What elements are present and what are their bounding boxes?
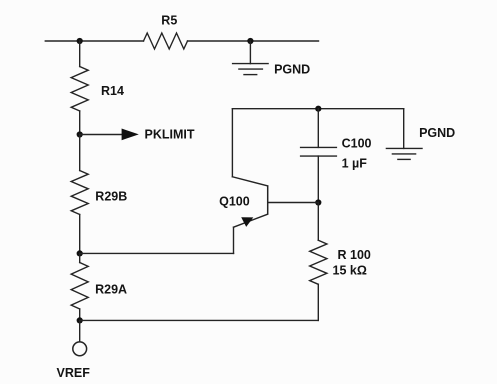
svg-text:PGND: PGND [274,63,310,77]
node junction D [77,250,83,256]
wire R29A to node E [79,309,81,320]
transistor Q100 emitter diagonal [234,214,268,227]
node junction C [77,131,83,137]
node junction A [77,38,83,44]
svg-text:R 100: R 100 [338,248,371,262]
svg-text:PKLIMIT: PKLIMIT [145,128,195,142]
node junction B [247,38,253,44]
transistor Q1 collector diagonal [232,177,267,186]
terminal VREF circle [73,342,87,356]
resistor R5 [144,33,188,49]
svg-text:15 kΩ: 15 kΩ [333,263,367,277]
svg-text:R14: R14 [101,84,124,98]
resistor R14 [71,67,88,112]
resistor R29A [71,263,88,310]
transistor Q100 emitter arrow [241,217,253,227]
wire bottom rail [80,319,319,321]
svg-text:1 µF: 1 µF [342,156,368,170]
resistor R100 [310,240,327,284]
wire top rail right segment [188,40,319,42]
node junction G [315,199,321,205]
svg-text:Q100: Q100 [219,194,250,208]
svg-text:R5: R5 [161,14,177,28]
wire collector riser [231,109,233,177]
wire middle rail [232,108,403,110]
wire node D to R29A [79,253,81,262]
wire node F to C100 top plate [317,109,319,148]
wire emitter drop [233,227,235,253]
node junction E [77,317,83,323]
wire base to node G [268,202,319,204]
resistor R29B [71,171,88,215]
wire R14 to node C [79,111,81,135]
wire node G to R100 [317,203,319,241]
wire top rail left segment [45,40,143,42]
svg-text:PGND: PGND [419,126,455,140]
wire C100 bottom to node G [317,156,319,202]
wire ground stub [249,41,251,64]
wire PGND2 drop [403,109,405,149]
wire node C to R29B [79,135,81,171]
wire PKLIMIT stub [80,134,122,136]
svg-text:VREF: VREF [57,366,91,380]
wire R29B to node D [79,215,81,254]
capacitor C100 [301,147,337,156]
wire node E to VREF terminal [79,320,81,342]
wire node D to emitter [80,252,234,254]
transistor Q100 base bar [267,185,269,214]
wire left rail A to R14 [79,41,81,67]
svg-text:R29B: R29B [95,189,127,203]
ground PGND2 symbol [386,148,422,159]
wire R100 bottom drop [317,284,319,320]
node junction F [315,106,321,112]
ground PGND1 symbol [233,64,269,75]
arrow PKLIMIT [122,129,139,141]
svg-text:R29A: R29A [95,283,127,297]
svg-text:C100: C100 [342,136,372,150]
